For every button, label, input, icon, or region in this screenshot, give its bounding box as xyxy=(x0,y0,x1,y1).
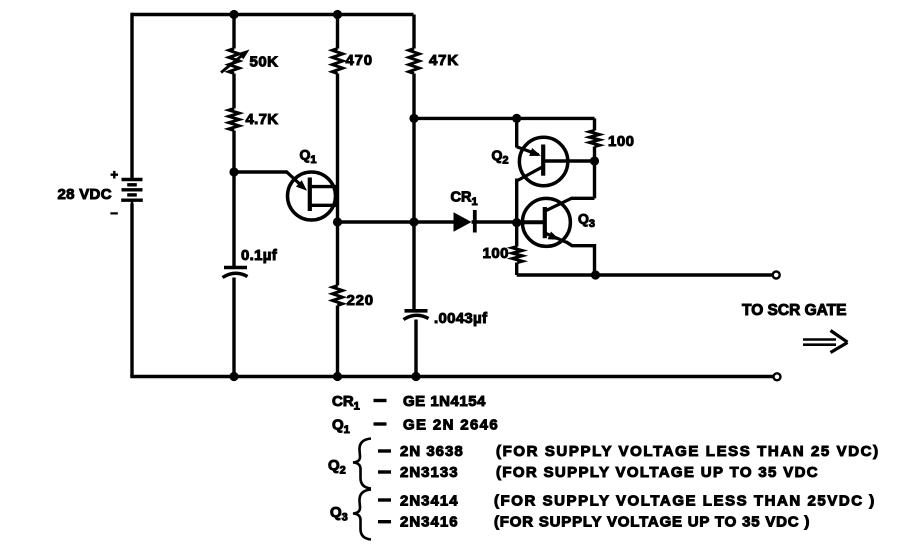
svg-text:470: 470 xyxy=(346,52,373,69)
svg-text:28 VDC: 28 VDC xyxy=(58,186,112,203)
svg-text:.0043µf: .0043µf xyxy=(434,310,488,327)
svg-text:220: 220 xyxy=(347,292,374,309)
svg-text:50K: 50K xyxy=(250,54,279,71)
svg-text:–: – xyxy=(111,205,118,220)
svg-text:2N3414: 2N3414 xyxy=(400,492,459,509)
svg-text:100: 100 xyxy=(608,133,635,150)
svg-text:(FOR SUPPLY VOLTAGE UP TO 35 V: (FOR SUPPLY VOLTAGE UP TO 35 VDC ) xyxy=(494,514,810,531)
svg-text:47K: 47K xyxy=(429,52,459,69)
svg-text:2N 3638: 2N 3638 xyxy=(400,443,464,460)
svg-text:GE 2N 2646: GE 2N 2646 xyxy=(403,417,499,434)
svg-text:GE 1N4154: GE 1N4154 xyxy=(403,393,486,410)
svg-text:2N3416: 2N3416 xyxy=(400,514,459,531)
svg-text:2N3133: 2N3133 xyxy=(400,464,459,481)
svg-text:(FOR SUPPLY VOLTAGE LESS THAN: (FOR SUPPLY VOLTAGE LESS THAN 25VDC ) xyxy=(494,492,876,509)
svg-text:TO SCR GATE: TO SCR GATE xyxy=(742,302,847,319)
svg-text:4.7K: 4.7K xyxy=(246,111,279,128)
svg-text:0.1µf: 0.1µf xyxy=(241,247,278,264)
svg-text:(FOR SUPPLY VOLTAGE UP TO 35 V: (FOR SUPPLY VOLTAGE UP TO 35 VDC xyxy=(496,464,819,481)
svg-text:100: 100 xyxy=(483,245,510,262)
svg-text:(FOR SUPPLY VOLTAGE LESS THAN: (FOR SUPPLY VOLTAGE LESS THAN 25 VDC) xyxy=(496,443,880,460)
svg-text:+: + xyxy=(111,167,119,182)
